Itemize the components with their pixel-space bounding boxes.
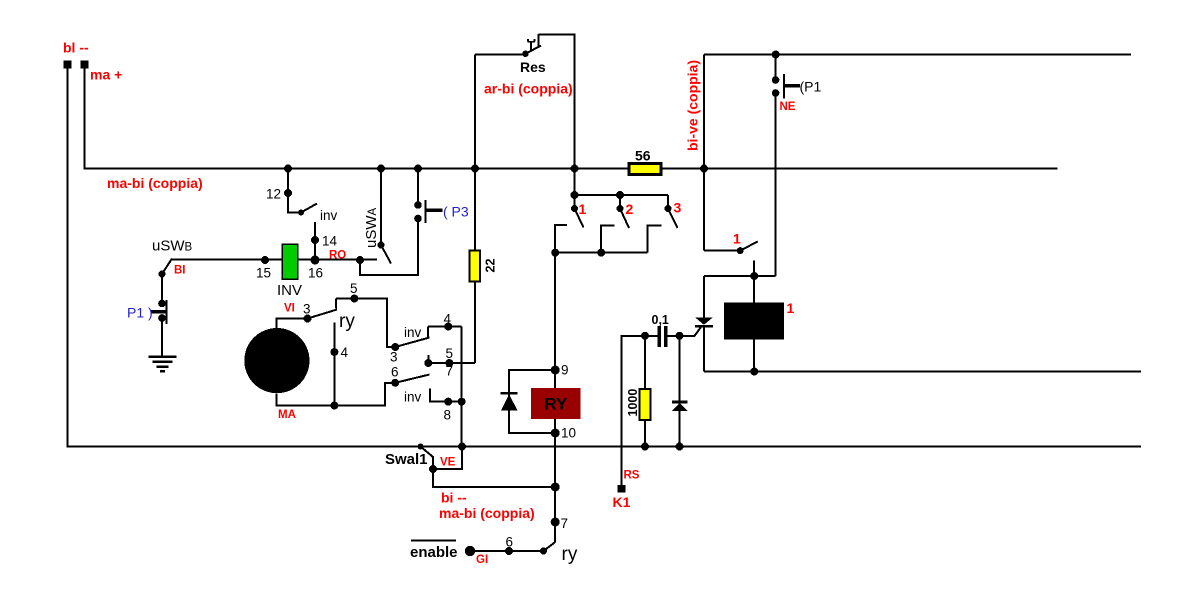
node x704 bus dot: [700, 165, 708, 173]
node inv-3 pole dot: [391, 343, 399, 351]
resistor R1 1000 body: [640, 389, 651, 420]
wire vertical x461 to rail: [461, 327, 463, 447]
node Reed1 top dot: [750, 272, 758, 280]
svg-text:bi-ve (coppia): bi-ve (coppia): [685, 60, 701, 151]
wire VE loop: [433, 447, 462, 470]
switch Swal1 pivot dot: [418, 444, 424, 450]
svg-text:1: 1: [787, 300, 795, 316]
svg-text:VI: VI: [284, 303, 295, 315]
node 14 dot: [311, 236, 319, 244]
node 9 dot: [551, 366, 560, 375]
svg-text:Reed: Reed: [732, 312, 773, 329]
switch sel-1 pole dot: [571, 205, 578, 212]
diode RY flyback triangle: [501, 394, 518, 410]
node gate1 dot: [676, 332, 684, 340]
node 5-7 dot: [445, 359, 453, 367]
svg-text:15: 15: [256, 266, 271, 281]
node throw rail dot 2: [597, 249, 605, 257]
switch inv-12 blade: [301, 204, 317, 213]
svg-text:12: 12: [266, 187, 281, 202]
svg-text:6: 6: [391, 365, 399, 380]
node cap1 left dot: [641, 332, 649, 340]
node bi junction dot: [551, 483, 560, 492]
node 7 dot: [551, 518, 560, 527]
switch inv-top blade: [395, 338, 429, 348]
svg-text:56: 56: [635, 148, 651, 164]
wire 5-7 terminal line: [428, 362, 475, 364]
resistor R 22: [470, 251, 481, 282]
svg-text:8: 8: [444, 408, 452, 423]
wire 15-16 horizontal: [171, 259, 377, 261]
wire x704 vertical: [703, 55, 705, 251]
node 12 branch wire: [288, 169, 301, 213]
svg-text:16: 16: [308, 266, 323, 281]
svg-text:1: 1: [733, 231, 741, 247]
switch uSWB pole dot: [159, 271, 166, 278]
wire Res switch feed: [475, 54, 526, 56]
svg-text:5: 5: [446, 346, 454, 361]
svg-text:7: 7: [446, 364, 454, 379]
wire throw contact 2: [601, 225, 615, 252]
switch uSWA riser: [380, 169, 382, 246]
thyristor SCR1 triangle: [695, 317, 713, 325]
svg-text:inv: inv: [320, 208, 338, 223]
node rail-462 dot: [458, 443, 466, 451]
node R1 rail dot: [641, 443, 649, 451]
wire cap1 right lead: [668, 335, 680, 337]
pushbutton P3mid stem: [426, 208, 443, 212]
wire selector pole rail y195: [575, 194, 669, 196]
wire pole stub 3: [667, 195, 669, 209]
node 4 dot: [330, 348, 338, 356]
relay Reed1 box: [724, 303, 784, 340]
switch Res pivot dot: [522, 51, 528, 57]
resistor R 56: [629, 164, 661, 175]
wire RY bottom: [554, 419, 556, 542]
node res22 bus dot: [471, 165, 479, 173]
wire terminal 5 to inv: [336, 299, 395, 348]
svg-text:1: 1: [579, 201, 587, 217]
wire bottom rail: [67, 446, 1141, 448]
switch sel-3 blade: [668, 209, 678, 229]
node 10 dot: [551, 429, 560, 438]
node 4tr dot: [444, 323, 452, 331]
wire ma+ vertical: [84, 68, 86, 170]
switch k1 blade: [740, 242, 758, 251]
svg-text:RY: RY: [544, 395, 568, 414]
switch inv-12 pivot dot: [298, 210, 304, 216]
node dot right of 16: [356, 256, 364, 264]
pushbutton P3mid contact dots: [414, 201, 422, 209]
svg-text:MA: MA: [278, 409, 296, 421]
diode D1 cathode bar: [672, 401, 688, 404]
diode D1 triangle: [672, 403, 688, 411]
wire terminal 4 horizontal: [428, 326, 461, 328]
wire pole stub 1: [574, 195, 576, 209]
svg-text:3: 3: [390, 350, 398, 365]
wire terminal 4 vertical: [333, 323, 335, 406]
node pole rail dot 1: [571, 191, 579, 199]
wire Reed1 bottom pin: [753, 340, 755, 372]
svg-text:22: 22: [484, 259, 498, 273]
wire P1ne riser upper: [775, 55, 777, 81]
svg-text:BI: BI: [174, 265, 186, 277]
switch Res contact stub: [538, 34, 540, 47]
ground symbol: [149, 357, 177, 372]
switch Res blade: [526, 46, 542, 54]
node 15 dot: [261, 256, 269, 264]
svg-text:bl --: bl --: [63, 40, 89, 56]
node inv-6 pole dot: [391, 379, 399, 387]
terminal GI dot: [465, 546, 475, 556]
wire throw contact 1: [555, 225, 567, 253]
switch sel-2 blade: [620, 209, 629, 229]
resistor R1 1000 wire: [644, 336, 646, 447]
node P1ne bus dot: [772, 51, 780, 59]
svg-text:RS: RS: [624, 470, 640, 482]
svg-text:ma +: ma +: [90, 67, 122, 83]
pushbutton P1 plunger bar: [166, 300, 168, 324]
svg-text:4: 4: [341, 345, 349, 360]
svg-text:ry: ry: [339, 311, 355, 332]
svg-text:inv: inv: [404, 325, 422, 340]
wire motor top to node 3: [277, 319, 308, 329]
svg-text:ry: ry: [562, 544, 578, 565]
wire Reed1 top stub: [753, 261, 755, 303]
svg-text:5: 5: [350, 281, 358, 296]
motor M circle: [244, 328, 309, 393]
node 16 dot: [311, 256, 320, 265]
svg-text:7: 7: [561, 516, 569, 531]
wire pole stub 2: [619, 195, 621, 209]
svg-text:4: 4: [444, 312, 452, 327]
svg-text:GI: GI: [476, 554, 488, 566]
wire VE down to center column: [433, 469, 555, 487]
switch uSWB blade: [162, 259, 172, 275]
node 6 dot: [505, 547, 513, 555]
pushbutton P1 contact dots: [158, 300, 166, 308]
node MA-4 junction dot: [330, 402, 338, 410]
node VE dot: [429, 465, 437, 473]
svg-text:14: 14: [322, 234, 338, 249]
svg-text:Swal1: Swal1: [385, 451, 428, 468]
terminal K1 square: [618, 485, 626, 493]
switch Res actuator T symbol: [528, 39, 536, 50]
switch sel-1 blade: [575, 209, 584, 228]
pushbutton P3mid riser: [417, 169, 419, 206]
thyristor SCR1 gate wire: [680, 325, 703, 336]
terminal ma+ square: [81, 61, 89, 69]
node Reed1 mid rail dot: [750, 368, 758, 376]
relay RY box: [531, 388, 581, 419]
diode D1 wire: [679, 336, 681, 447]
switch inv-bottom blade: [395, 375, 429, 383]
thyristor SCR1 cathode wire: [703, 328, 705, 372]
node 12 bus dot: [284, 165, 292, 173]
switch ry-enable blade: [544, 542, 556, 551]
node throw rail dot 1: [551, 249, 559, 257]
node x574 bus dot: [571, 165, 579, 173]
pushbutton P1ne stem: [785, 84, 801, 88]
switch uSWA blade: [381, 245, 391, 264]
svg-text:Res: Res: [520, 59, 546, 75]
switch Swal1 blade: [421, 447, 434, 458]
svg-text:inv: inv: [404, 390, 422, 405]
enable overline: [411, 540, 456, 542]
node x461 junction dot: [458, 398, 466, 406]
svg-text:(P1: (P1: [800, 79, 822, 95]
wire P3mid down-left to node 16 branch: [360, 219, 418, 275]
svg-text:RO: RO: [329, 250, 346, 262]
svg-text:3: 3: [303, 302, 311, 317]
node 8 dot: [444, 398, 452, 406]
node 5 dot: [350, 295, 358, 303]
svg-text:10: 10: [561, 426, 576, 441]
wire throw common rail: [555, 252, 647, 254]
wire uSWB to P1: [161, 274, 163, 303]
svg-text:6: 6: [506, 535, 514, 550]
diode RY flyback bar: [501, 392, 518, 395]
switch k1 pole dot: [737, 247, 744, 254]
wire riser x475 res22 top: [474, 55, 476, 251]
switch ry blade: [308, 310, 338, 319]
svg-text:enable: enable: [410, 544, 458, 561]
svg-text:ar-bi (coppia): ar-bi (coppia): [484, 81, 573, 97]
wire center column to RY: [554, 253, 556, 389]
wire Res top return: [539, 35, 575, 169]
relay INV green box: [282, 244, 298, 279]
wire switch1 feed: [704, 250, 740, 252]
wire RY diode branch: [509, 370, 555, 433]
node uSWA on bus dot: [377, 165, 385, 173]
thyristor SCR1 cathode bar: [695, 325, 713, 328]
wire SCR1 anode riser: [703, 276, 705, 318]
pushbutton P3mid plunger bar: [425, 200, 427, 223]
svg-text:bi --: bi --: [441, 490, 467, 506]
svg-text:( P3: ( P3: [443, 204, 469, 220]
svg-text:0,1: 0,1: [652, 313, 669, 327]
wire K1 riser: [622, 336, 646, 485]
capacitor C1 0,1 plates: [657, 326, 661, 347]
svg-text:1000: 1000: [626, 389, 640, 417]
svg-text:K1: K1: [613, 494, 631, 510]
wire contact 4 stub: [427, 327, 429, 339]
wire ma-bi bus y168: [84, 168, 1058, 170]
wire mid rail y371: [704, 371, 1141, 373]
svg-text:INV: INV: [277, 282, 302, 299]
wire throw contact 3: [648, 225, 662, 252]
pushbutton P1ne plunger bar: [783, 74, 785, 99]
wire ry contact 5 stub: [335, 299, 337, 309]
switch sel-2 pole dot: [617, 205, 624, 212]
node D1 rail dot: [676, 443, 684, 451]
wire pin14 stub: [314, 222, 316, 260]
wire enable line: [470, 550, 544, 552]
wire motor bottom MA: [277, 383, 396, 406]
svg-text:9: 9: [561, 363, 569, 378]
node ry-3 dot: [304, 315, 312, 323]
wire section1 anode rail y276: [704, 275, 776, 277]
svg-text:ma-bi (coppia): ma-bi (coppia): [107, 175, 203, 191]
node pole rail dot 2: [616, 191, 624, 199]
wire riser x475 res22 bottom: [474, 282, 476, 364]
svg-text:3: 3: [674, 200, 682, 216]
svg-text:P1 ): P1 ): [127, 305, 153, 321]
terminal bl- square: [64, 61, 72, 69]
svg-text:M: M: [267, 348, 288, 376]
node 5-7 left dot: [424, 359, 432, 367]
wire bl- vertical left: [67, 68, 69, 447]
pushbutton P1 stem: [151, 310, 167, 314]
wire P1 to ground: [161, 318, 163, 356]
svg-text:ma-bi (coppia): ma-bi (coppia): [439, 505, 535, 521]
wire contact 7 stub: [427, 355, 429, 363]
pushbutton P1ne contact dots: [772, 76, 780, 84]
node P3mid on bus dot: [414, 165, 422, 173]
svg-text:2: 2: [626, 201, 634, 217]
switch ry-enable contact dot: [540, 548, 547, 555]
wire terminal 8: [430, 388, 462, 401]
wire P1ne riser lower: [775, 93, 777, 276]
wire top bus bi-ve: [704, 54, 1131, 56]
wire cap1 left lead: [645, 335, 658, 337]
svg-text:NE: NE: [780, 101, 796, 113]
switch uSWA pole dot: [378, 242, 385, 249]
switch sel-3 pole dot: [665, 205, 672, 212]
node 12 dot: [284, 189, 292, 197]
wire x574 to selector rail: [574, 169, 576, 196]
svg-text:VE: VE: [440, 457, 456, 469]
